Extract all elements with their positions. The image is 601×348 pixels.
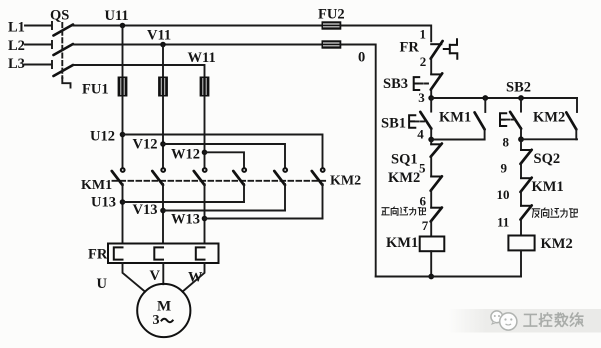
svg-text:7: 7 [422, 218, 429, 233]
wire torque switch to KM2 coil [520, 219, 522, 235]
forward over-torque NC contact [431, 208, 442, 222]
FR heater element U [114, 247, 123, 259]
svg-text:KM1: KM1 [532, 179, 564, 195]
wire contact4 down [243, 184, 245, 202]
svg-text:1: 1 [420, 27, 427, 42]
wire V13 cross line [163, 210, 285, 212]
limit switch SQ2 NC contact [521, 139, 532, 164]
wire W13 cross line [205, 218, 323, 220]
svg-text:6: 6 [420, 193, 427, 208]
svg-text:KM2: KM2 [533, 110, 565, 126]
node zero-rail junction [428, 274, 434, 280]
pushbutton SB2 NO contact [510, 98, 521, 129]
label 正向过力矩 (forward over-torque) [382, 207, 426, 215]
contactor KM2 main contact 6 [312, 168, 325, 185]
wire U-phase drop to fuse [122, 26, 124, 77]
svg-text:FU2: FU2 [318, 7, 345, 23]
contactor KM1 main contact 2 (V) [152, 168, 165, 185]
pushbutton SB2 actuator [500, 113, 506, 126]
pushbutton SB2 link (dashed) [507, 119, 515, 121]
svg-text:W11: W11 [188, 50, 216, 66]
wire FR to motor V [162, 263, 164, 284]
svg-text:QS: QS [50, 8, 69, 24]
contactor KM1 auxiliary NO contact [475, 98, 486, 140]
fuse FU1 W-phase [200, 77, 210, 97]
fuse FU1 V-phase [158, 77, 168, 97]
contactor KM2 main contact 4 [233, 168, 246, 185]
svg-text:U12: U12 [90, 129, 115, 145]
wire L1 bus to FU2 [73, 25, 322, 27]
wire V12 cross line to KM2 contact 5 [163, 144, 285, 168]
watermark logo bubble small [491, 311, 503, 324]
svg-text:SQ1: SQ1 [391, 152, 418, 168]
wire contact1 to FR [122, 184, 124, 244]
svg-text:V12: V12 [133, 137, 158, 153]
svg-text:9: 9 [501, 161, 508, 176]
wire KM1 coil to zero rail [430, 251, 432, 276]
wire SB1 to node 4 [430, 128, 432, 140]
FR heater element W [196, 247, 205, 259]
wire L3 feeder [25, 61, 52, 68]
svg-text:KM2: KM2 [541, 236, 573, 252]
wire FR to SB3 [430, 58, 432, 74]
svg-text:10: 10 [497, 187, 510, 202]
svg-text:SB2: SB2 [506, 80, 531, 96]
pushbutton SB1 actuator [409, 115, 415, 128]
switch QS mechanical link (dashed) [61, 23, 63, 78]
pushbutton SB1 NO contact [420, 98, 431, 129]
node V13 [160, 208, 166, 214]
wire node 3 bus [431, 97, 577, 99]
node U13 [120, 199, 126, 205]
svg-text:SB1: SB1 [381, 116, 406, 132]
contactor KM2 NC interlock contact [431, 176, 442, 190]
wire FU2 to control rail [341, 26, 431, 42]
wire node 8 branch line [521, 138, 577, 140]
fuse FU1 U-phase [118, 77, 128, 97]
svg-text:KM1: KM1 [439, 110, 471, 126]
svg-text:0: 0 [358, 50, 365, 66]
switch QS pole 3 blade [54, 65, 74, 76]
wire KM1 interlock to torque switch [520, 192, 522, 206]
thermal relay FR heater block [108, 244, 219, 264]
svg-text:L2: L2 [8, 38, 25, 54]
svg-text:SB3: SB3 [383, 76, 408, 92]
pushbutton SB3 NC contact [431, 73, 442, 89]
pushbutton SB1 link (dashed) [416, 120, 425, 122]
wire torque switch to KM1 coil [430, 221, 432, 236]
label 反向过力矩 (reverse over-torque) [532, 208, 577, 218]
wire FR to motor U [123, 263, 146, 292]
wire W12 cross line to KM2 contact 4 [205, 152, 245, 168]
thermal relay FR NC contact [431, 41, 443, 59]
svg-text:U13: U13 [91, 195, 116, 211]
svg-text:U: U [97, 276, 108, 292]
wire contact5 down [284, 184, 286, 211]
svg-text:L1: L1 [8, 20, 25, 36]
node W12 [202, 150, 208, 156]
node 4 [428, 137, 434, 143]
node 8 [518, 136, 524, 142]
wire V-phase fuse to contact [162, 97, 164, 169]
svg-text:U11: U11 [105, 8, 129, 24]
svg-text:KM2: KM2 [330, 174, 361, 189]
svg-text:W12: W12 [171, 147, 200, 163]
contactor KM1 main contact 1 (U) [112, 168, 125, 185]
node SB2 top [518, 95, 524, 101]
contactor KM1 main contact 3 (W) [194, 168, 207, 185]
wire FU2 to zero rail [341, 45, 375, 277]
thermal relay FR function symbol [444, 39, 458, 59]
wire U12 cross line to KM2 contact 6 [123, 135, 323, 169]
wire KM2 interlock to torque switch [430, 190, 432, 207]
wire L1 feeder [25, 22, 52, 29]
contactor KM2 auxiliary NO contact [566, 98, 577, 139]
node W13 [202, 216, 208, 222]
wire node 4 branch line [431, 139, 484, 141]
reverse over-torque NC contact [521, 205, 532, 219]
wire contact6 down [322, 184, 324, 219]
svg-text:V11: V11 [147, 28, 171, 44]
svg-text:3: 3 [418, 90, 425, 105]
motor M circle [137, 284, 190, 337]
switch QS pole 1 blade [54, 25, 74, 36]
pushbutton SB3 link (dashed) [420, 83, 430, 85]
svg-text:FR: FR [88, 247, 108, 263]
node U12 [120, 132, 126, 138]
svg-text:KM1: KM1 [81, 178, 112, 193]
fuse FU2 (L1 branch) [322, 21, 342, 29]
svg-text:V13: V13 [133, 202, 158, 218]
watermark text 工控教练 [524, 313, 583, 326]
svg-text:V: V [150, 268, 161, 284]
wire SQ2 to KM1 interlock [520, 164, 522, 179]
wire SB2 to node 8 [520, 128, 522, 139]
node V11 [160, 42, 166, 48]
wire W-phase fuse to contact [204, 97, 206, 169]
svg-text:3: 3 [153, 313, 160, 328]
wire L3 bus to W-phase drop [73, 65, 205, 77]
switch QS handle hook [62, 78, 70, 88]
svg-text:W: W [188, 270, 203, 286]
wire SQ1 to KM2 interlock [430, 156, 432, 176]
fuse FU2 (L2 branch) [322, 40, 342, 48]
svg-text:SQ2: SQ2 [534, 151, 561, 167]
node KM1 branch top [482, 95, 488, 101]
switch QS pole 2 blade [54, 44, 74, 55]
wire FR to motor W [183, 263, 205, 292]
svg-text:2: 2 [420, 54, 427, 69]
FR heater element V [154, 247, 163, 259]
node V12 [160, 141, 166, 147]
wire zero rail bottom [376, 276, 521, 278]
coil KM2 [508, 236, 534, 251]
svg-text:11: 11 [497, 214, 509, 229]
svg-text:W13: W13 [171, 212, 200, 228]
watermark logo bubble large [500, 313, 517, 330]
wire U13 cross line [123, 201, 245, 203]
svg-text:L3: L3 [8, 56, 25, 72]
wire contact3 to FR [204, 184, 206, 244]
node 3 [428, 95, 434, 101]
contactor KM1 NC interlock contact [521, 178, 532, 192]
svg-text:KM1: KM1 [386, 235, 418, 251]
mechanical link dashed line KM1-KM2 main contacts [113, 180, 329, 182]
contactor KM2 main contact 5 [274, 168, 287, 185]
svg-text:8: 8 [503, 135, 510, 150]
svg-text:FR: FR [400, 40, 420, 56]
wire U-phase fuse to contact [122, 97, 124, 169]
pushbutton SB3 actuator [414, 77, 420, 90]
wire L2 feeder [25, 41, 52, 48]
wire contact2 to FR [162, 184, 164, 244]
coil KM1 [420, 237, 445, 252]
wire V-phase drop to fuse [162, 45, 164, 77]
wire L2 bus to FU2 [73, 44, 322, 46]
limit switch SQ1 NC contact [431, 140, 442, 157]
node U11 [120, 23, 126, 29]
wire SB3 to node 3 [430, 89, 432, 98]
svg-text:KM2: KM2 [388, 170, 420, 186]
wire KM2 coil to zero rail [520, 250, 522, 276]
svg-text:4: 4 [417, 127, 424, 142]
svg-text:FU1: FU1 [82, 82, 109, 98]
